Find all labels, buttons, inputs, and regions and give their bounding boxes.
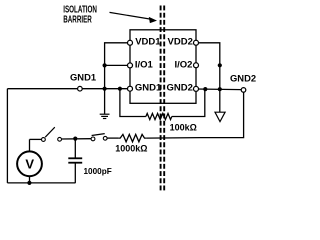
signal ground triangle (215, 112, 225, 121)
pin VDD2 (194, 40, 199, 45)
isolation barrier dashed line (left) (160, 6, 162, 192)
isolation barrier dashed line (right) (163, 6, 165, 192)
svg-text:V: V (25, 157, 34, 172)
terminal GND1 (78, 86, 83, 91)
switch S2 (closed) (91, 134, 107, 141)
wire bottom (7, 182, 75, 184)
node V-meter bottom junction (27, 181, 31, 185)
wire S2 to resistor (107, 137, 118, 139)
wire V to switch S1 (30, 138, 42, 140)
pin VDD1 (128, 40, 133, 45)
svg-text:1000kΩ: 1000kΩ (115, 144, 147, 154)
node GND2/100k junction (203, 87, 207, 91)
switch S1 (open) (42, 127, 62, 141)
svg-text:VDD1: VDD1 (135, 36, 161, 47)
node GND2/VDD2-line junction (218, 87, 222, 91)
svg-text:GND2: GND2 (166, 82, 192, 93)
wire S1 to cap node (62, 138, 91, 140)
capacitor C1 1000pF (68, 139, 111, 183)
node GND1/100k junction (118, 87, 122, 91)
svg-text:GND1: GND1 (70, 71, 96, 82)
chip U1 body (130, 30, 196, 104)
terminal GND2 (241, 88, 246, 93)
svg-text:GND1: GND1 (135, 82, 162, 93)
node bus/GND1 junction (103, 87, 107, 91)
svg-text:GND2: GND2 (230, 72, 256, 83)
svg-text:VDD2: VDD2 (168, 36, 193, 47)
wire left rail (6, 89, 8, 183)
svg-text:1000pF: 1000pF (84, 167, 112, 176)
pin I/O1 (128, 63, 133, 68)
svg-text:BARRIER: BARRIER (63, 13, 92, 25)
wire VDD1 from left bus (105, 43, 130, 114)
wire GND1 row (7, 88, 130, 90)
isolation barrier pointer arrow (110, 12, 158, 23)
wire resistor to GND2 terminal (147, 92, 244, 138)
pin GND1 (128, 86, 133, 91)
wire VDD2 to signal ground (196, 43, 220, 112)
isolation barrier label (63, 3, 97, 25)
svg-text:100kΩ: 100kΩ (170, 123, 197, 133)
node bus/IO1 junction (103, 63, 107, 67)
svg-text:I/O1: I/O1 (135, 59, 154, 70)
resistor R1 100kohm loop (120, 89, 146, 117)
voltmeter V (17, 139, 42, 183)
node on VDD2 down-line (I/O2 row) (218, 63, 222, 67)
wire I/O1 from bus (105, 64, 130, 66)
pin I/O2 (194, 63, 199, 68)
earth ground (100, 114, 110, 118)
pin GND2 (194, 86, 199, 91)
svg-text:I/O2: I/O2 (174, 59, 192, 70)
pin labels (135, 36, 193, 93)
resistor R2 1000kohm (119, 134, 147, 141)
wire GND2 row (196, 88, 241, 91)
node capacitor junction (73, 137, 77, 141)
